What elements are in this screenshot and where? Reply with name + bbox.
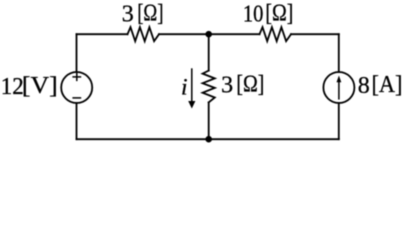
wire top-middle: [159, 33, 260, 35]
svg-text:3: 3: [221, 72, 233, 98]
wire right lower: [338, 103, 340, 139]
current arrow i: [188, 68, 195, 108]
wire top-left: [77, 33, 128, 35]
svg-text:[V]: [V]: [22, 73, 58, 99]
wire top-right: [291, 33, 339, 35]
wire bottom: [77, 138, 339, 140]
current source arrow: [337, 76, 342, 100]
voltage source minus: [72, 97, 81, 99]
resistor R2: [260, 27, 292, 41]
svg-text:8: 8: [358, 73, 370, 99]
svg-text:[Ω]: [Ω]: [137, 1, 163, 27]
svg-text:i: i: [181, 74, 188, 100]
voltage source plus: [72, 73, 81, 81]
svg-text:3: 3: [122, 2, 134, 28]
svg-text:10: 10: [243, 2, 264, 28]
svg-text:[Ω]: [Ω]: [236, 71, 264, 97]
voltage source V1 circle: [61, 72, 92, 103]
wire left lower: [76, 103, 78, 139]
resistor R3: [203, 71, 215, 103]
wire left upper: [76, 34, 78, 72]
svg-text:[A]: [A]: [372, 72, 403, 98]
current source I1 circle: [323, 72, 354, 103]
svg-text:[Ω]: [Ω]: [265, 1, 293, 27]
junction node bottom: [205, 136, 212, 143]
wire right upper: [338, 34, 340, 72]
wire middle upper: [208, 34, 210, 70]
svg-text:12: 12: [1, 74, 24, 100]
junction node top: [205, 31, 212, 38]
resistor R1: [128, 27, 160, 41]
wire middle lower: [208, 102, 210, 139]
